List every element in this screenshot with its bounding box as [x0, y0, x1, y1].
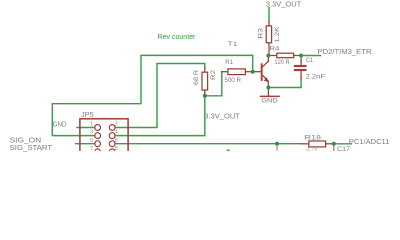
svg-text:68 R: 68 R [193, 70, 200, 85]
svg-text:7: 7 [90, 146, 93, 152]
svg-text:1: 1 [90, 122, 93, 128]
svg-text:JP5: JP5 [81, 110, 94, 119]
junction node mid bottom wire [275, 142, 279, 146]
wire 3.3V_OUT down to JP5 pin4 [115, 96, 205, 136]
capacitor C17 pin clipped [333, 145, 335, 151]
svg-text:T1: T1 [228, 41, 238, 48]
wire JP5 pin5 stub [76, 143, 95, 145]
svg-text:R18: R18 [305, 135, 322, 142]
svg-text:R1: R1 [225, 59, 233, 66]
svg-text:SIG_ON: SIG_ON [10, 137, 42, 144]
junction node collector/R3/R4 [266, 54, 270, 58]
svg-text:500 R: 500 R [224, 77, 241, 84]
svg-text:Rev counter: Rev counter [158, 32, 196, 41]
svg-text:GND: GND [261, 98, 278, 105]
wire R18 right to PC1 [334, 143, 352, 145]
svg-text:2.2nF: 2.2nF [306, 73, 326, 80]
svg-text:R2: R2 [210, 70, 217, 80]
wire base junction drop [252, 55, 254, 71]
resistor R3 [266, 21, 271, 55]
svg-text:R3: R3 [258, 28, 265, 39]
svg-text:120 R: 120 R [274, 59, 289, 66]
svg-text:PC1/ADC11: PC1/ADC11 [349, 137, 390, 146]
junction node R18/C17 [332, 142, 336, 146]
pin numbers JP5 [90, 122, 118, 152]
svg-text:6: 6 [115, 138, 118, 144]
junction node emitter/C1 [266, 86, 270, 90]
wire C1 bottom to emitter junction [268, 79, 301, 88]
svg-text:C1: C1 [306, 57, 313, 64]
svg-text:47k: 47k [306, 147, 319, 154]
wire JP5 pin1 stub [77, 127, 95, 129]
transistor T1 [253, 56, 269, 88]
wire stub below junction clipped [276, 146, 278, 151]
junction node R4/C1/PD2 [299, 54, 303, 58]
wire 3.3V_OUT supply top [268, 8, 270, 22]
wire JP5 pin6 to R18 [115, 143, 301, 145]
resistor R2 [202, 68, 208, 93]
junction node R2 bottom supply [203, 94, 207, 98]
svg-text:4: 4 [115, 130, 118, 136]
wire PD2 net [301, 55, 320, 57]
svg-text:8: 8 [115, 146, 118, 152]
resistor R1 [222, 69, 253, 75]
svg-text:SIG_START: SIG_START [10, 145, 53, 152]
wire net GND rail top [52, 55, 252, 135]
svg-text:R4: R4 [270, 45, 280, 52]
svg-text:3: 3 [90, 130, 93, 136]
connector JP5 [80, 119, 128, 156]
svg-text:PD2/TIM3_ETR: PD2/TIM3_ETR [318, 47, 372, 56]
svg-text:1.2K: 1.2K [274, 26, 281, 43]
svg-text:C17: C17 [337, 146, 350, 153]
resistor R18 [301, 141, 334, 147]
svg-text:GND: GND [53, 122, 67, 129]
svg-text:3.3V_OUT: 3.3V_OUT [204, 111, 240, 120]
svg-text:5: 5 [90, 138, 93, 144]
ground GND under transistor [260, 88, 280, 98]
wire R2 bottom to R1 left [205, 72, 222, 96]
junction node base of T1 [251, 70, 255, 74]
svg-text:2: 2 [115, 122, 118, 128]
svg-text:3.3V_OUT: 3.3V_OUT [266, 0, 302, 9]
junction node clipped below wire [226, 149, 230, 153]
resistor R4 [269, 53, 302, 58]
capacitor C1 [294, 56, 307, 79]
wire net rail to R2 top [115, 64, 205, 128]
